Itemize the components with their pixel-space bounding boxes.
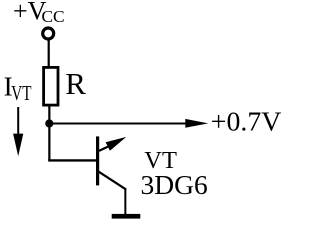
svg-text:CC: CC <box>42 7 65 26</box>
svg-text:VT: VT <box>11 82 31 105</box>
svg-text:+0.7V: +0.7V <box>211 106 281 137</box>
svg-text:3DG6: 3DG6 <box>141 169 208 200</box>
svg-text:R: R <box>65 66 86 101</box>
